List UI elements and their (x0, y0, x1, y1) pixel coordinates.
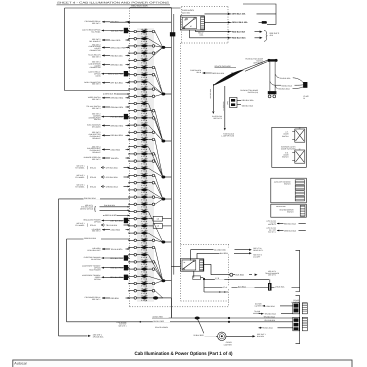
sheet header title (57, 2, 171, 5)
relay dashed box (bottom) (181, 244, 229, 306)
node ETA A2 row (75, 165, 129, 170)
svg-text:17.6: 17.6 (215, 277, 219, 280)
svg-text:TAN BLK 8GA: TAN BLK 8GA (276, 205, 286, 208)
svg-text:ORN BLK 8GA: ORN BLK 8GA (105, 93, 118, 96)
svg-text:COIL: COIL (200, 34, 204, 37)
junction node at y=47.4 (162, 46, 172, 49)
wire label A-BLK-8GA at y=229.7 (92, 228, 130, 233)
fuse row 4 (129, 47, 163, 57)
wire label ORN-BLK-40A at y=64.6 (88, 60, 129, 69)
svg-text:TAN 8GA: TAN 8GA (111, 157, 120, 160)
wire: RED BLK 8GA top feed (130, 5, 172, 8)
svg-text:SWITCH: SWITCH (284, 182, 291, 185)
svg-text:(: ( (87, 175, 89, 179)
svg-text:OA BLK 8GA: OA BLK 8GA (280, 77, 291, 80)
svg-text:4X4 OPT: 4X4 OPT (253, 255, 260, 258)
flag connector (268, 283, 272, 291)
wire bus to relay K2 (171, 266, 180, 268)
door switch box (272, 127, 307, 167)
fuse row 29 (129, 230, 163, 242)
relay K1 (fuse block) (180, 16, 204, 30)
svg-text:SEE SHT 1: SEE SHT 1 (92, 298, 101, 301)
svg-text:TAIL PANEL: TAIL PANEL (91, 31, 100, 34)
fuse row 5 (129, 47, 163, 64)
svg-text:CONNECTOR: CONNECTOR (90, 66, 102, 69)
wire ORN BLK 40A (205, 12, 277, 16)
svg-text:GRY BLK 8GA: GRY BLK 8GA (106, 176, 119, 179)
svg-text:ETA A4: ETA A4 (90, 185, 96, 188)
wire TRL BLK 8GA row (253, 310, 293, 318)
svg-text:PNK BLK 8GA: PNK BLK 8GA (84, 197, 96, 200)
heated mirror switch box (271, 204, 307, 217)
LH door switch (282, 131, 289, 138)
svg-text:SEE SHT 3: SEE SHT 3 (92, 107, 101, 110)
wire bus B1 (170, 8, 172, 318)
fuse row 7 (129, 71, 163, 94)
node ETA A4 row (75, 184, 129, 189)
svg-text:TRL BLK 8GA: TRL BLK 8GA (265, 313, 277, 316)
svg-text:BD OPTION: BD OPTION (91, 258, 101, 261)
bus connector blob (170, 32, 175, 36)
svg-text:ECO DRAG OPT: ECO DRAG OPT (88, 249, 101, 252)
aux switch contact 4 (295, 196, 304, 201)
svg-text:CB: CB (157, 225, 159, 228)
svg-text:ORN BLK 8GA: ORN BLK 8GA (242, 99, 255, 102)
plug B connector (303, 82, 309, 100)
fuse row 16 (129, 136, 163, 177)
wire label A-BLK-8GA at y=149.5 (87, 145, 130, 154)
circuit breaker row 27 (129, 215, 172, 223)
fuse row 13 (129, 115, 163, 142)
svg-text:TRL BLK 8GA: TRL BLK 8GA (106, 224, 118, 227)
svg-text:ORN BLK 40A: ORN BLK 40A (232, 13, 246, 16)
fuse row 24 (129, 194, 163, 202)
svg-text:BLK 8GA: BLK 8GA (257, 335, 265, 338)
fuse row 10 (129, 93, 163, 101)
fuse row 9 (129, 86, 163, 94)
Autocar window bar (13, 360, 352, 367)
svg-text:Autocar: Autocar (14, 362, 27, 366)
svg-text:(: ( (87, 223, 89, 227)
fuse row 22 (129, 179, 163, 199)
svg-text:ETA A1: ETA A1 (90, 224, 96, 227)
wire BLK 8GA (row 249.7) (191, 247, 264, 261)
svg-text:(: ( (87, 166, 89, 170)
svg-text:IGN B: IGN B (196, 71, 201, 74)
wire label TAN-8GA at y=158.0 (84, 156, 130, 161)
fuse row 20 (129, 165, 163, 177)
fuse row 36 (129, 280, 163, 288)
fuse block label rows right (266, 220, 306, 227)
svg-text:A BLK 8GA: A BLK 8GA (111, 148, 121, 151)
svg-text:RED 8GA: RED 8GA (111, 21, 120, 24)
svg-text:(: ( (227, 100, 229, 105)
svg-text:(: ( (87, 185, 89, 189)
svg-text:4X4: 4X4 (270, 34, 273, 37)
svg-text:8A BLK RED: 8A BLK RED (153, 316, 164, 319)
svg-text:10: 10 (299, 126, 301, 129)
fuse row 19 (129, 158, 163, 177)
svg-text:10: 10 (299, 147, 301, 150)
svg-text:TAN BLK 8GA: TAN BLK 8GA (242, 105, 254, 108)
svg-text:TO CAB: TO CAB (254, 310, 260, 313)
junction node at y=177.0 (162, 176, 172, 179)
fuse row 17 (129, 143, 163, 177)
auxiliary window switch box (271, 178, 307, 203)
wire label ORN-U-BLK-POS at y=73.7 (88, 71, 129, 78)
svg-text:{: { (94, 206, 96, 213)
svg-text:DOOR SWITCHES: DOOR SWITCHES (281, 148, 296, 151)
CB below relay K2 (193, 271, 205, 280)
fuse row 12 (129, 107, 163, 141)
svg-text:SEE SHT 1: SEE SHT 1 (76, 174, 84, 177)
wire W BLK 8GA row (230, 327, 293, 330)
svg-text:CONN: CONN (96, 75, 102, 78)
svg-text:ORN BLK 8GA: ORN BLK 8GA (111, 106, 124, 109)
svg-text:BLK 8GA: BLK 8GA (236, 273, 245, 276)
svg-text:W BLK 8GA: W BLK 8GA (263, 327, 273, 330)
splice drop wires (270, 62, 275, 91)
wire OA BLK 8GA to plug B (275, 74, 303, 83)
svg-text:SEE SHT 3: SEE SHT 3 (213, 117, 222, 120)
svg-text:FUSE BLOCK: FUSE BLOCK (266, 227, 277, 230)
svg-text:SEE SHT 1: SEE SHT 1 (92, 22, 101, 25)
svg-text:1 AMP SP FUSE: 1 AMP SP FUSE (221, 135, 234, 138)
wire label RED-8GA at y=21.8 (85, 20, 130, 25)
svg-text:RED BLK 60A: RED BLK 60A (232, 30, 246, 33)
fuse block dashed box (top) (182, 7, 229, 43)
svg-text:GRN BLK 8GA: GRN BLK 8GA (111, 97, 124, 100)
svg-text:DEL DOME LP: DEL DOME LP (89, 40, 101, 43)
wire cigar lighter to sheet 1 (226, 333, 266, 338)
svg-text:LIGHTER: LIGHTER (224, 343, 232, 346)
wire label RED-BLK-8GA at y=215.5 (103, 213, 130, 217)
svg-text:RED BLK 8GA: RED BLK 8GA (105, 214, 118, 217)
wire K BLK 8GA row (255, 302, 293, 307)
svg-text:SEE SHT 2: SEE SHT 2 (268, 270, 276, 273)
cigar lighter (218, 332, 233, 346)
wire label GRN-BLK-8GA at y=97.8 (88, 96, 130, 101)
fuse row 30 (129, 237, 163, 245)
wire TAN BLK 8GA stub (205, 102, 214, 104)
junction node at y=141.0 (162, 140, 172, 143)
svg-text:SEE SHT 3: SEE SHT 3 (92, 83, 101, 86)
fuse row 1 (129, 28, 163, 47)
node ETA A3 row (75, 174, 129, 179)
fuse row 23 (129, 187, 163, 200)
wire loop A (PNK BLK 8GA) (59, 196, 130, 336)
connector block lower (293, 317, 308, 331)
svg-text:OPTION: OPTION (94, 278, 101, 281)
svg-text:SPLICE 8GA: SPLICE 8GA (93, 335, 104, 338)
wire to cigar lighter (193, 319, 217, 338)
svg-text:SEE SHT 2: SEE SHT 2 (92, 98, 101, 101)
svg-text:SWITCH: SWITCH (282, 156, 289, 159)
wire RED BLK 60A (196, 30, 263, 34)
fuse row 31 (129, 244, 163, 281)
push button door switch optional label (245, 58, 263, 65)
wire label PNK-BLK-8GA at y=116.6 (88, 112, 129, 121)
svg-text:FUSE BLOCK: FUSE BLOCK (266, 220, 277, 223)
wire loop to plug (243, 4, 276, 24)
svg-text:A BLK 8GA: A BLK 8GA (111, 229, 121, 232)
svg-text:ETA A3: ETA A3 (90, 176, 96, 179)
svg-text:REAR SHT 1: REAR SHT 1 (253, 249, 263, 252)
option label box outline (65, 8, 181, 91)
wire label RED-BLK-40A at y=55.5 (88, 54, 130, 59)
splice swoosh (213, 60, 267, 85)
svg-text:CONNECTOR: CONNECTOR (90, 49, 102, 52)
svg-text:A BLK RED: A BLK RED (111, 39, 121, 42)
fuse block ACC/IGN label (182, 9, 195, 14)
svg-text:RED BLK 8GA: RED BLK 8GA (232, 37, 246, 40)
fuse row 8 (129, 79, 163, 95)
relay K1 connector pins (201, 17, 205, 30)
fuse row 35 (129, 273, 163, 281)
wire TAN BLK 8GA to plug B (275, 86, 303, 91)
wire label RED-BLK-PEA at y=267.7 (82, 265, 130, 272)
interior light door switches label (281, 146, 297, 151)
bottom feed line 1 (152, 315, 293, 318)
svg-text:TAN BLK 8GA: TAN BLK 8GA (278, 88, 290, 91)
aux switch contact 3 (295, 191, 304, 196)
5th wheel slide detent rows (80, 204, 130, 213)
svg-text:GRN BLK 8GA: GRN BLK 8GA (84, 237, 97, 240)
svg-text:SEE SHT 1: SEE SHT 1 (76, 184, 84, 187)
svg-text:Cab Illumination & Power Optio: Cab Illumination & Power Options (Part 1… (135, 351, 233, 357)
bottom feed line 2 (67, 319, 293, 329)
svg-text:ORN BLK 8GA: ORN BLK 8GA (284, 229, 297, 232)
svg-text:PENDANT: PENDANT (92, 151, 100, 154)
LH door switch symbol (292, 126, 305, 142)
svg-text:PENDANT: PENDANT (92, 137, 100, 140)
svg-text:RED BLK 8GA: RED BLK 8GA (131, 5, 148, 8)
svg-text:TECH POWER: TECH POWER (89, 269, 101, 272)
splice connector bar bottom (268, 91, 277, 98)
fuse row 38 (129, 295, 163, 303)
junction node at y=242.0 (162, 241, 172, 244)
harness bracket right upper (296, 250, 300, 291)
fuse row 37 (129, 287, 163, 298)
harness bracket right lower (296, 296, 300, 344)
fuse row 32 (129, 251, 163, 280)
svg-text:RED 8GA: RED 8GA (111, 297, 120, 300)
wire to clutch switch (209, 84, 223, 120)
wire BLK 8GA (row 274.7) (203, 264, 279, 276)
svg-text:SEE SHT 2: SEE SHT 2 (92, 230, 101, 233)
connector block upper (293, 303, 308, 314)
wire label ORN-BLK-8GA at y=94.0 (103, 91, 130, 95)
svg-text:50 BLK RED: 50 BLK RED (194, 334, 205, 337)
svg-text:SEE SHT 2: SEE SHT 2 (92, 158, 101, 161)
svg-text:ORN-U BLK POS: ORN-U BLK POS (111, 46, 127, 49)
relay coil label (198, 32, 204, 37)
svg-text:LIGHTER: LIGHTER (291, 301, 299, 304)
svg-text:TRL BLK 8GA: TRL BLK 8GA (111, 248, 124, 251)
svg-text:OPT BLK 8GA: OPT BLK 8GA (111, 82, 124, 85)
relay K2 (bottom fuse block) (180, 259, 203, 271)
ladder scan haze (137, 28, 154, 302)
svg-text:SPLICE HIDDEN: SPLICE HIDDEN (155, 326, 169, 329)
fuse row 34 (129, 266, 163, 281)
svg-text:BLK 8GA: BLK 8GA (238, 285, 247, 288)
svg-text:ORN-U BLK 40A: ORN-U BLK 40A (232, 21, 248, 24)
RH door switch (282, 151, 289, 158)
fuse row 11 (129, 100, 163, 141)
splice package label (215, 65, 237, 68)
fuse row 3 (129, 43, 163, 51)
svg-text:SEE SHT 1: SEE SHT 1 (85, 204, 93, 207)
wire label ORN-BLK-8GA at y=277.3 (82, 274, 130, 281)
aux switch contact 2 (295, 185, 304, 190)
harness dashed boundary (center vertical) (180, 43, 182, 301)
push button door switch LH (227, 89, 259, 107)
splice 8GA note (59, 333, 105, 338)
wire loop B (GRN BLK 8GA) (67, 236, 130, 321)
wire B BLK 8GA (204, 279, 300, 289)
bus junction dots (171, 298, 230, 323)
svg-text:GRY BLK 8GA: GRY BLK 8GA (106, 166, 119, 169)
aux switch contact 1 (295, 180, 304, 185)
wire label GRN-BLK-PEA at y=258.0 (84, 255, 130, 261)
wire label TAN-BLK-POS at y=30.5 (82, 28, 129, 34)
svg-text:RED BLK 8GA: RED BLK 8GA (111, 134, 124, 137)
wire label ORN-BLK-8GA at y=125.5 (87, 124, 130, 129)
svg-text:ACC IGN: ACC IGN (182, 11, 191, 14)
circuit breaker row 28 (129, 223, 172, 231)
svg-text:NO PWR: NO PWR (255, 302, 262, 305)
harness dashed boundary (bottom) (130, 306, 229, 308)
wire stub below relay K2 (204, 288, 228, 293)
fuse row 26 (129, 208, 163, 242)
svg-text:SHEET 4 - CAB ILLUMINATION AND: SHEET 4 - CAB ILLUMINATION AND POWER OPT… (57, 2, 169, 5)
svg-text:FUSE BLOCK: FUSE BLOCK (116, 321, 127, 324)
wire label RED-8GA at y=298.0 (85, 296, 130, 301)
wire bus B2 (173, 14, 175, 275)
fuse row 15 (129, 129, 163, 141)
junction node at y=199.0 (162, 198, 172, 201)
RH door switch symbol (292, 147, 305, 163)
svg-text:SWITCH: SWITCH (282, 135, 289, 138)
wire label GRY-BLK-8GA at y=220.5 (83, 218, 129, 224)
svg-text:30: 30 (183, 261, 185, 264)
node ETA A1 row (75, 222, 129, 227)
svg-text:ORN BLK 40A: ORN BLK 40A (111, 63, 124, 66)
svg-text:A/C RED 8GA: A/C RED 8GA (209, 89, 212, 99)
svg-text:LH RED 8GA: LH RED 8GA (222, 102, 225, 111)
wire to fuse block (down) (221, 86, 234, 138)
ladder bottom splice blob (153, 296, 171, 299)
wire: RED 8GA row with junction (110, 21, 171, 23)
svg-text:OPTION: OPTION (94, 221, 101, 224)
wire IPL BLK 8GA row (265, 319, 276, 322)
junction node at y=94.0 (162, 93, 172, 96)
svg-text:BLK 8GA: BLK 8GA (220, 252, 229, 255)
svg-text:SEE SHT 3: SEE SHT 3 (92, 56, 101, 59)
wire 17.6 to flag (204, 277, 270, 284)
svg-text:SEE SHT 1: SEE SHT 1 (76, 165, 84, 168)
svg-text:14 A BLK 40A: 14 A BLK 40A (214, 248, 226, 251)
wire to fuse block IGN (190, 69, 233, 75)
svg-text:RED BLK 40A: RED BLK 40A (111, 54, 124, 57)
fuse row 18 (129, 151, 163, 178)
svg-text:RED BLK 8GA: RED BLK 8GA (212, 72, 225, 75)
wire label TRL-BLK-8GA at y=249.0 (88, 247, 130, 252)
svg-text:ORN BLK 8GA: ORN BLK 8GA (111, 124, 124, 127)
fuse row 25 (129, 199, 163, 209)
svg-text:30: 30 (184, 18, 186, 21)
fuse row 2 (129, 35, 163, 47)
svg-text:K BLK 8GA: K BLK 8GA (266, 305, 276, 308)
see sheet 2 brace (264, 30, 279, 41)
svg-text:PNK BLK 8GA: PNK BLK 8GA (104, 204, 116, 207)
svg-text:U BLK 8GA: U BLK 8GA (275, 286, 285, 289)
svg-text:SWITCH: SWITCH (287, 210, 294, 213)
harness dashed boundary (ladder left) (129, 8, 131, 307)
svg-text:ETA A2: ETA A2 (90, 166, 96, 169)
svg-text:DR LOCKS: DR LOCKS (92, 126, 102, 129)
diagram title (135, 351, 233, 357)
svg-text:ON BLK RED: ON BLK RED (153, 320, 165, 323)
wire BLK 8GA (row 253.3) (197, 251, 262, 258)
wire ORN-U BLK 40A (205, 20, 268, 24)
cigar lighter connector label (291, 299, 299, 304)
heated mirror switch contacts (300, 205, 305, 216)
svg-text:87: 87 (190, 25, 192, 28)
wire label ORN-BLK-8GA at y=107.0 (86, 105, 129, 110)
wire label OPT-BLK-8GA at y=82.7 (84, 81, 129, 86)
wire RED BLK 8GA (190, 30, 263, 40)
svg-text:GRN BLK 8GA: GRN BLK 8GA (106, 185, 119, 188)
svg-text:SWITCH: SWITCH (94, 118, 101, 121)
junction node at y=280.7 (162, 279, 172, 282)
wire label ORN-U-BLK-POS at y=47.5 (88, 43, 129, 52)
fuse block label row 2 (266, 227, 306, 234)
svg-text:SEE SHT 1: SEE SHT 1 (76, 222, 84, 225)
wire label RED-BLK-8GA at y=135.4 (89, 131, 130, 140)
fuse row 21 (129, 172, 163, 199)
svg-text:CB: CB (157, 217, 159, 220)
svg-text:RED BLK 8GA: RED BLK 8GA (284, 222, 297, 225)
wire label A-BLK-RED at y=40.0 (89, 38, 129, 43)
wire RA BLK 8GA to plug B (270, 82, 304, 88)
svg-text:SWITCH (LH): SWITCH (LH) (248, 91, 259, 94)
fuse row 33 (129, 259, 163, 281)
fuse row 14 (129, 122, 163, 141)
splice connector bar top (267, 59, 277, 62)
fuse row 6 (129, 64, 163, 94)
